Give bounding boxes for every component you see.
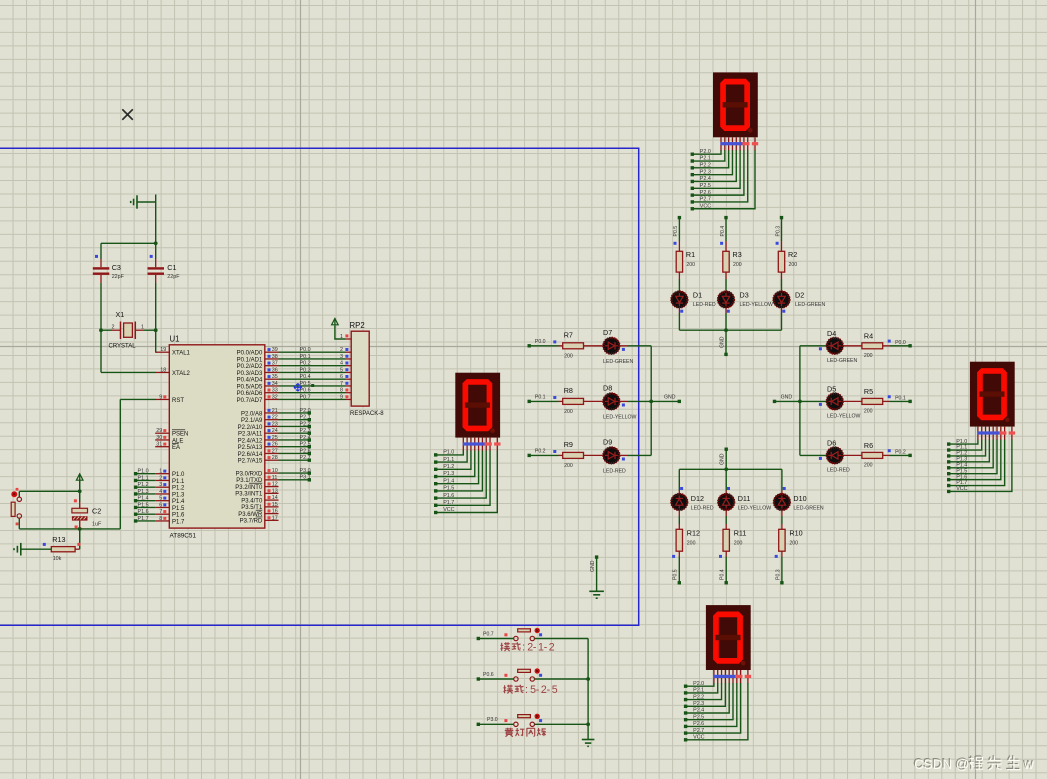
svg-text:P2.5: P2.5 (693, 714, 704, 720)
svg-text:LED-GREEN: LED-GREEN (827, 358, 858, 364)
svg-text:P0.0: P0.0 (895, 340, 906, 346)
svg-text:1: 1 (141, 325, 144, 331)
svg-text:P2.1/A9: P2.1/A9 (241, 418, 263, 424)
svg-text:P0.4: P0.4 (300, 374, 311, 380)
svg-text:16: 16 (272, 509, 278, 515)
svg-text:P0.3: P0.3 (300, 367, 311, 373)
svg-text:P1.0: P1.0 (172, 472, 185, 478)
svg-text:P2.4/A12: P2.4/A12 (238, 438, 263, 444)
svg-text:P2.6: P2.6 (700, 190, 711, 196)
svg-text:D9: D9 (603, 437, 612, 446)
svg-text:22: 22 (272, 415, 278, 421)
svg-text:P0.6/AD6: P0.6/AD6 (237, 391, 263, 397)
svg-text:P0.3/AD3: P0.3/AD3 (237, 371, 263, 377)
svg-text:P3.0: P3.0 (300, 468, 311, 474)
svg-text:4: 4 (159, 489, 162, 495)
svg-text:200: 200 (733, 262, 742, 268)
svg-text:13: 13 (272, 488, 278, 494)
svg-text:P0.3: P0.3 (775, 569, 781, 580)
svg-text:200: 200 (789, 262, 798, 268)
svg-text:P2.5: P2.5 (700, 183, 711, 189)
svg-text:P0.4/AD4: P0.4/AD4 (237, 378, 263, 384)
svg-text:R5: R5 (864, 387, 873, 396)
svg-text:P0.2: P0.2 (535, 448, 546, 454)
svg-text:1: 1 (340, 334, 343, 340)
svg-text:P3.2/INT0: P3.2/INT0 (235, 485, 263, 491)
svg-text:200: 200 (687, 541, 696, 547)
svg-text:P2.1: P2.1 (700, 156, 711, 162)
svg-text:EA: EA (172, 445, 180, 451)
svg-text:R2: R2 (788, 250, 797, 259)
svg-text:2: 2 (112, 325, 115, 331)
svg-text:VCC: VCC (443, 507, 454, 513)
svg-text:P0.5/AD5: P0.5/AD5 (237, 384, 263, 390)
svg-text:VCC: VCC (956, 486, 967, 492)
svg-text:19: 19 (160, 347, 166, 353)
svg-text:C2: C2 (92, 507, 101, 516)
svg-text:6: 6 (159, 502, 162, 508)
svg-text:P1.5: P1.5 (138, 502, 149, 508)
svg-text:P2.3: P2.3 (300, 428, 311, 434)
svg-text:38: 38 (272, 354, 278, 360)
svg-text:P0.1: P0.1 (535, 394, 546, 400)
svg-text:2: 2 (159, 475, 162, 481)
svg-text:D5: D5 (827, 384, 836, 393)
svg-text:GND: GND (664, 394, 676, 400)
svg-text:P1.3: P1.3 (138, 489, 149, 495)
svg-text:P0.0/AD0: P0.0/AD0 (237, 351, 263, 357)
svg-text:D11: D11 (738, 494, 751, 503)
svg-text:P3.0/RXD: P3.0/RXD (236, 471, 263, 477)
svg-text:P2.6: P2.6 (300, 448, 311, 454)
svg-text:-: - (533, 642, 537, 654)
svg-text:P1.7: P1.7 (138, 516, 149, 522)
svg-text:P1.7: P1.7 (172, 519, 185, 525)
svg-text:R13: R13 (52, 535, 65, 544)
svg-text:7: 7 (340, 381, 343, 387)
svg-text:P1.0: P1.0 (138, 469, 149, 475)
svg-text:P2.7/A15: P2.7/A15 (238, 459, 263, 465)
svg-text:CRYSTAL: CRYSTAL (109, 344, 137, 350)
svg-text:R10: R10 (789, 529, 802, 538)
svg-text:P1.6: P1.6 (138, 509, 149, 515)
svg-text:P2.5: P2.5 (300, 442, 311, 448)
svg-text:LED-GREEN: LED-GREEN (793, 506, 824, 512)
svg-text:9: 9 (159, 394, 162, 400)
svg-text:P1.1: P1.1 (443, 457, 454, 463)
svg-text:XTAL2: XTAL2 (172, 371, 191, 377)
svg-text:P0.2: P0.2 (895, 450, 906, 456)
svg-text:D2: D2 (795, 291, 804, 300)
svg-text:P0.5: P0.5 (300, 381, 311, 387)
svg-text:26: 26 (272, 442, 278, 448)
svg-text:17: 17 (272, 515, 278, 521)
svg-text:P0.7: P0.7 (483, 631, 494, 637)
svg-text:39: 39 (272, 347, 278, 353)
svg-text:14: 14 (272, 495, 278, 501)
svg-text:P2.5/A13: P2.5/A13 (238, 445, 263, 451)
svg-text:P2.4: P2.4 (700, 176, 711, 182)
svg-text:P2.6/A14: P2.6/A14 (238, 452, 263, 458)
svg-text:10: 10 (272, 468, 278, 474)
svg-text::: : (522, 642, 525, 654)
svg-text:8: 8 (340, 388, 343, 394)
svg-text:P1.6: P1.6 (443, 493, 454, 499)
svg-text:P2.7: P2.7 (693, 728, 704, 734)
svg-text:-: - (547, 684, 551, 696)
svg-text:P0.7: P0.7 (300, 394, 311, 400)
svg-text:27: 27 (272, 448, 278, 454)
svg-text:LED-YELLOW: LED-YELLOW (738, 506, 772, 512)
svg-text:P2.2/A10: P2.2/A10 (238, 425, 263, 431)
svg-text:VCC: VCC (693, 735, 704, 741)
svg-text:P1.4: P1.4 (172, 499, 185, 505)
svg-text:P0.0: P0.0 (300, 347, 311, 353)
svg-text:P0.2/AD2: P0.2/AD2 (237, 364, 263, 370)
svg-text:200: 200 (564, 409, 573, 415)
svg-text:U1: U1 (170, 335, 180, 344)
svg-text:R7: R7 (564, 330, 573, 339)
svg-text:P1.0: P1.0 (443, 450, 454, 456)
svg-text:D1: D1 (693, 291, 702, 300)
svg-text:P2.3: P2.3 (700, 169, 711, 175)
svg-text:P0.4: P0.4 (720, 226, 726, 237)
svg-text:RST: RST (172, 398, 184, 404)
svg-text:GND: GND (781, 394, 793, 400)
svg-text:P1.1: P1.1 (172, 479, 185, 485)
svg-text:36: 36 (272, 367, 278, 373)
svg-text:P1.7: P1.7 (443, 500, 454, 506)
svg-text:P0.3: P0.3 (775, 226, 781, 237)
svg-text:P3.3/INT1: P3.3/INT1 (235, 492, 263, 498)
svg-text:R6: R6 (864, 441, 873, 450)
svg-text:3: 3 (340, 354, 343, 360)
svg-text:D7: D7 (603, 328, 612, 337)
svg-text:PSEN: PSEN (172, 432, 188, 438)
svg-text:7: 7 (159, 509, 162, 515)
svg-text:D8: D8 (603, 383, 612, 392)
svg-text:GND: GND (720, 453, 726, 465)
svg-text:2: 2 (340, 347, 343, 353)
svg-text:24: 24 (272, 428, 278, 434)
svg-text:8: 8 (159, 516, 162, 522)
svg-text:P0.0: P0.0 (535, 339, 546, 345)
svg-text:D4: D4 (827, 329, 836, 338)
svg-text:P3.1: P3.1 (300, 475, 311, 481)
svg-text:P0.1: P0.1 (300, 354, 311, 360)
svg-text:C3: C3 (112, 263, 121, 272)
svg-text:5: 5 (159, 496, 162, 502)
svg-text:X1: X1 (116, 310, 125, 319)
svg-text:XTAL1: XTAL1 (172, 351, 191, 357)
svg-text:P0.7/AD7: P0.7/AD7 (237, 398, 263, 404)
svg-text:-: - (544, 642, 548, 654)
svg-text:VCC: VCC (700, 203, 711, 209)
svg-text:9: 9 (340, 394, 343, 400)
svg-text:LED-GREEN: LED-GREEN (795, 302, 826, 308)
svg-text:11: 11 (272, 475, 278, 481)
svg-text:LED-RED: LED-RED (691, 506, 714, 512)
svg-text:P0.2: P0.2 (300, 361, 311, 367)
svg-text:30: 30 (156, 435, 162, 441)
svg-text:D12: D12 (691, 494, 704, 503)
svg-text:P2.2: P2.2 (700, 163, 711, 169)
svg-text:P1.5: P1.5 (443, 486, 454, 492)
svg-text:P2.2: P2.2 (300, 421, 311, 427)
svg-text:R12: R12 (687, 529, 700, 538)
svg-text:200: 200 (686, 262, 695, 268)
svg-text:D10: D10 (793, 494, 806, 503)
svg-text:31: 31 (156, 442, 162, 448)
svg-text::: : (525, 684, 528, 696)
svg-text:R9: R9 (564, 440, 573, 449)
svg-text:LED-YELLOW: LED-YELLOW (827, 413, 861, 419)
svg-text:P2.4: P2.4 (300, 435, 311, 441)
svg-text:2: 2 (549, 642, 555, 654)
svg-text:P2.0: P2.0 (300, 408, 311, 414)
svg-text:23: 23 (272, 421, 278, 427)
svg-text:18: 18 (160, 367, 166, 373)
svg-text:P2.4: P2.4 (693, 708, 704, 714)
svg-text:P1.5: P1.5 (172, 506, 185, 512)
svg-text:P0.1/AD1: P0.1/AD1 (237, 357, 263, 363)
svg-text:GND: GND (590, 560, 596, 572)
svg-text:LED-YELLOW: LED-YELLOW (603, 414, 637, 420)
svg-text:D6: D6 (827, 438, 836, 447)
svg-text:P1.2: P1.2 (172, 486, 185, 492)
svg-text:P2.1: P2.1 (300, 415, 311, 421)
svg-text:200: 200 (734, 541, 743, 547)
svg-text:34: 34 (272, 381, 278, 387)
svg-text:21: 21 (272, 408, 278, 414)
svg-text:P2.1: P2.1 (693, 688, 704, 694)
svg-text:5: 5 (552, 684, 558, 696)
svg-text:200: 200 (789, 541, 798, 547)
svg-text:P1.2: P1.2 (138, 482, 149, 488)
svg-text:P2.0: P2.0 (693, 681, 704, 687)
svg-text:R4: R4 (864, 331, 873, 340)
svg-text:35: 35 (272, 374, 278, 380)
svg-text:32: 32 (272, 394, 278, 400)
svg-text:CSDN @: CSDN @ (914, 757, 969, 772)
svg-text:10k: 10k (53, 556, 62, 562)
svg-text:D3: D3 (740, 291, 749, 300)
svg-text:200: 200 (864, 353, 873, 359)
svg-text:R1: R1 (686, 250, 695, 259)
svg-text:P2.2: P2.2 (693, 694, 704, 700)
svg-text:25: 25 (272, 435, 278, 441)
svg-text:LED-YELLOW: LED-YELLOW (740, 302, 774, 308)
svg-text:P2.7: P2.7 (700, 197, 711, 203)
svg-text:AT89C51: AT89C51 (170, 533, 197, 540)
svg-text:P1.6: P1.6 (172, 513, 185, 519)
svg-text:-: - (536, 684, 540, 696)
svg-text:12: 12 (272, 482, 278, 488)
svg-text:P1.4: P1.4 (443, 478, 454, 484)
svg-text:LED-RED: LED-RED (603, 468, 626, 474)
svg-text:29: 29 (156, 428, 162, 434)
svg-text:5: 5 (340, 367, 343, 373)
svg-text:P1.3: P1.3 (443, 471, 454, 477)
svg-text:4: 4 (340, 361, 343, 367)
svg-text:22pF: 22pF (167, 274, 180, 280)
svg-text:6: 6 (340, 374, 343, 380)
svg-text:37: 37 (272, 361, 278, 367)
svg-text:R8: R8 (564, 386, 573, 395)
svg-text:C1: C1 (167, 263, 176, 272)
svg-text:P3.4/T0: P3.4/T0 (241, 498, 263, 504)
svg-text:P3.0: P3.0 (487, 717, 498, 723)
svg-text:33: 33 (272, 388, 278, 394)
svg-text:w: w (1023, 757, 1034, 772)
svg-text:RP2: RP2 (350, 321, 365, 330)
svg-text:R11: R11 (734, 529, 747, 538)
svg-text:15: 15 (272, 502, 278, 508)
svg-text:P2.3: P2.3 (693, 701, 704, 707)
svg-text:P0.6: P0.6 (483, 672, 494, 678)
svg-text:1: 1 (159, 469, 162, 475)
svg-text:P1.3: P1.3 (172, 492, 185, 498)
svg-text:P3.7/RD: P3.7/RD (240, 519, 263, 525)
svg-text:200: 200 (864, 462, 873, 468)
svg-text:P2.6: P2.6 (693, 721, 704, 727)
svg-text:P2.3/A11: P2.3/A11 (238, 432, 263, 438)
svg-text:P0.1: P0.1 (895, 396, 906, 402)
svg-text:P0.4: P0.4 (720, 569, 726, 580)
svg-text:RESPACK-8: RESPACK-8 (350, 411, 384, 417)
svg-text:22pF: 22pF (112, 274, 125, 280)
svg-text:LED-GREEN: LED-GREEN (603, 359, 634, 365)
svg-text:LED-RED: LED-RED (827, 467, 850, 473)
svg-text:P2.0/A8: P2.0/A8 (241, 411, 263, 417)
svg-text:P2.7: P2.7 (300, 455, 311, 461)
svg-text:200: 200 (864, 408, 873, 414)
svg-text:200: 200 (564, 463, 573, 469)
svg-text:P0.5: P0.5 (673, 569, 679, 580)
svg-text:GND: GND (719, 336, 725, 348)
svg-text:28: 28 (272, 455, 278, 461)
svg-text:200: 200 (564, 353, 573, 359)
svg-text:P2.0: P2.0 (700, 149, 711, 155)
svg-text:P0.5: P0.5 (673, 226, 679, 237)
svg-text:P1.4: P1.4 (138, 496, 149, 502)
svg-text:P1.2: P1.2 (443, 464, 454, 470)
svg-text:3: 3 (159, 482, 162, 488)
svg-text:1uF: 1uF (92, 522, 102, 528)
svg-text:R3: R3 (733, 250, 742, 259)
svg-text:P1.1: P1.1 (138, 475, 149, 481)
svg-text:LED-RED: LED-RED (693, 302, 716, 308)
